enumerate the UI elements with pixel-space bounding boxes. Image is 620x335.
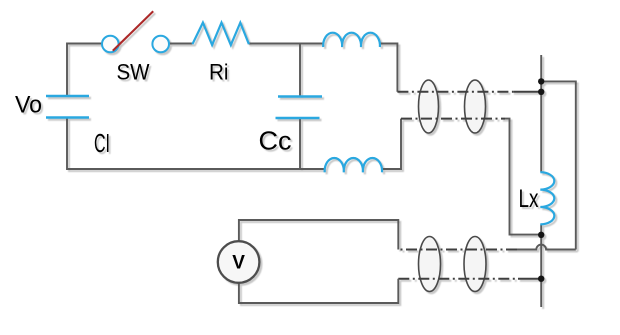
wire: after top inductor, corner down to top dash-dot <box>380 44 398 92</box>
dash-dot: lower coupling upper line <box>398 249 517 251</box>
switch SW circle right <box>152 36 169 53</box>
junction dot: rail/right-branch tee <box>538 78 544 84</box>
junction dot: Lx bottom node <box>538 232 544 238</box>
wire: right branch (top tee to right rail down) <box>541 81 576 249</box>
inductor top (3 humps) <box>323 33 380 47</box>
dash-dot: top coupling upper line <box>397 91 514 93</box>
wire: left vertical below battery + bottom wire <box>67 117 325 169</box>
dash-dot: top coupling lower line <box>401 118 505 120</box>
switch SW circle left <box>102 36 119 53</box>
svg-text:SW: SW <box>117 60 150 85</box>
wire: Cc bottom stem <box>299 119 301 169</box>
wire: solid end of lower coupling lower line to rail <box>518 278 539 280</box>
switch SW blade (red) <box>113 11 153 51</box>
wire: Cc top stem <box>299 44 301 96</box>
wire: between switch and resistor <box>169 43 192 45</box>
wire: resistor to inductor, through Cc tap <box>249 43 323 45</box>
dash-dot: lower coupling lower line <box>398 278 518 280</box>
coupling ellipse top-left <box>419 80 439 133</box>
wire: voltmeter loop bottom <box>239 279 398 303</box>
svg-text:CI: CI <box>94 128 110 158</box>
svg-text:Vo: Vo <box>15 92 42 119</box>
svg-text:Lx: Lx <box>519 185 539 213</box>
inductor Lx vertical (3 humps, bulge right) <box>540 172 554 224</box>
svg-text:Cc: Cc <box>259 126 292 156</box>
svg-text:Ri: Ri <box>209 60 229 85</box>
wire: voltmeter loop top <box>239 220 398 250</box>
junction dot: rail/top dash-dot <box>538 89 544 95</box>
wire: main rail below Lx coil to bottom free end <box>540 225 542 308</box>
svg-text:V: V <box>232 253 245 274</box>
wire: Lx left branch from coupling down and right to junction <box>505 119 539 235</box>
coupling ellipse bottom-right <box>464 237 486 292</box>
wire: after bottom inductor, corner up to lower dash-dot of top coupling <box>382 119 401 169</box>
inductor bottom (3 humps) <box>325 158 382 172</box>
coupling ellipse top-right <box>465 80 486 133</box>
wire: lower coupling upper line solid right part with hop over rail <box>517 245 576 250</box>
wire: solid end of top coupling upper line to rail <box>514 91 541 93</box>
capacitor Cc plates <box>276 97 323 119</box>
wire: left vertical + top wire to switch <box>67 44 102 96</box>
coupling ellipse bottom-left <box>419 237 441 292</box>
junction dot: rail/lower dash-dot <box>538 276 544 282</box>
resistor Ri zigzag <box>192 23 249 45</box>
voltmeter V circle <box>218 241 260 283</box>
battery Vo plates <box>46 96 89 118</box>
wire: main rail top stub down to Lx coil <box>540 55 542 172</box>
